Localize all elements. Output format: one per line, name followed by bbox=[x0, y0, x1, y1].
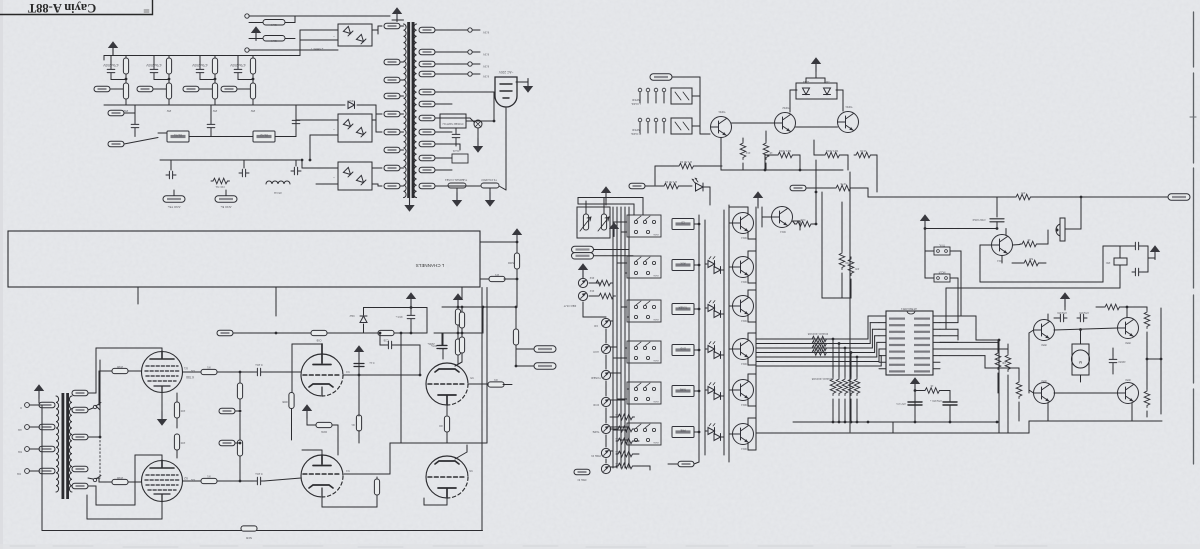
ground V4 bias bbox=[302, 404, 312, 418]
wire switch common vertical bbox=[924, 229, 926, 279]
svg-text:1K: 1K bbox=[930, 384, 933, 387]
svg-text:47WV 100uF: 47WV 100uF bbox=[972, 218, 986, 220]
zener diode NE2 bbox=[360, 316, 367, 323]
output transformer T2 secondary winding bbox=[56, 396, 59, 492]
wire LED D11 bbox=[705, 307, 707, 309]
svg-text:KT88: KT88 bbox=[186, 375, 194, 379]
svg-text:L CHANNELS: L CHANNELS bbox=[416, 263, 445, 268]
resistor R510 bbox=[995, 351, 1001, 370]
resistor R317 on V1 wire bbox=[201, 369, 217, 374]
svg-text:RC3 +: RC3 + bbox=[395, 315, 402, 318]
svg-text:8050: 8050 bbox=[1041, 379, 1047, 382]
ground TF2 bbox=[485, 193, 495, 207]
ground at AC inlet bbox=[523, 79, 533, 93]
svg-text:47K: 47K bbox=[1020, 191, 1025, 194]
wire relay K12 to bus bbox=[694, 308, 699, 310]
wire switches to IC pins bbox=[960, 251, 962, 316]
svg-text:FR107: FR107 bbox=[347, 99, 355, 102]
relay coil K10 bbox=[672, 219, 694, 230]
svg-text:470u/16V: 470u/16V bbox=[1057, 311, 1067, 313]
transistor Q13 selector driver bbox=[733, 339, 754, 360]
wire bus2 extension right bbox=[296, 104, 345, 106]
wire filter to bridge bbox=[253, 55, 300, 57]
svg-text:1K: 1K bbox=[769, 151, 772, 155]
wire jack chain bbox=[605, 355, 607, 369]
svg-text:~: ~ bbox=[333, 175, 335, 179]
svg-text:9014: 9014 bbox=[741, 236, 747, 239]
resistor R204 bbox=[513, 329, 518, 345]
wire Q13 base bbox=[729, 348, 733, 350]
capacitor C506 bbox=[1057, 314, 1067, 322]
capacitor C102 470uF bbox=[150, 66, 158, 76]
input jack J2 AUX bbox=[601, 344, 610, 353]
wire R503 right to B+ rail bbox=[867, 188, 869, 197]
svg-text:47mH: 47mH bbox=[274, 191, 282, 195]
capacitor C109 bbox=[239, 169, 249, 177]
svg-text:2K2: 2K2 bbox=[589, 289, 594, 292]
block L CHANNELS outline bbox=[8, 231, 480, 287]
svg-text:TIP41: TIP41 bbox=[718, 110, 726, 114]
wire Q16 links bbox=[762, 216, 772, 218]
capacitor C501 470u bbox=[943, 402, 957, 405]
bridge rectifier D3 bbox=[338, 162, 372, 190]
tube V2 grids bbox=[145, 475, 179, 490]
wire bridge2 left pins bbox=[296, 119, 338, 121]
transformer primary terminal P8 bbox=[384, 165, 400, 171]
wire Q15 collector bbox=[747, 418, 749, 425]
resistor R102 (upper) bbox=[166, 58, 171, 74]
wire bottom selector bbox=[634, 465, 650, 467]
wire Q17 emitter net bbox=[1001, 256, 1003, 264]
transistor Q19 bbox=[1034, 383, 1055, 404]
resistor R514 bbox=[1144, 389, 1150, 408]
transistor Q10 selector driver bbox=[733, 213, 754, 234]
transistor Q17 remote amp bbox=[992, 235, 1013, 256]
output transformer T2 core bbox=[62, 393, 65, 499]
switch SW2 TKVL bbox=[934, 247, 950, 255]
svg-text:ATV 4.7u: ATV 4.7u bbox=[896, 402, 906, 405]
tube V1 grids bbox=[145, 366, 179, 381]
LED D12 indicator bbox=[708, 346, 715, 353]
svg-text:2W: 2W bbox=[251, 109, 256, 113]
selector wire bundle verticals bbox=[612, 207, 614, 468]
transformer primary terminal P2 bbox=[384, 59, 400, 65]
resistor R314 bbox=[459, 337, 464, 353]
svg-text:C6B: C6B bbox=[316, 339, 321, 342]
relay RL4 box bbox=[671, 118, 692, 134]
remote sensor area: resistor R507 bbox=[1014, 194, 1033, 200]
ground right of block bbox=[512, 228, 522, 242]
ground V3 grid bypass bbox=[354, 345, 364, 359]
wire sec 186 to fuse bbox=[441, 185, 470, 187]
svg-text:2W: 2W bbox=[213, 109, 218, 113]
wire T2 tap B+ (centre) bbox=[88, 436, 100, 438]
wire Q14 collector bbox=[747, 374, 749, 381]
resistor R101 (upper) bbox=[123, 58, 128, 74]
transistor Q15 selector driver bbox=[733, 424, 754, 445]
LED D5 bbox=[692, 178, 703, 191]
output transformer T2 secondary pills bbox=[39, 402, 55, 408]
net vertical x487 bbox=[486, 288, 488, 444]
tube V1 KT88 envelope bbox=[142, 352, 183, 393]
capacitor C101 470uF bbox=[107, 66, 115, 76]
terminal circle sec bbox=[468, 28, 472, 32]
transformer secondary terminal S7 bbox=[419, 115, 435, 121]
svg-text:W 1.5K R1: W 1.5K R1 bbox=[679, 160, 692, 163]
ground below V1 cathode bbox=[157, 412, 167, 426]
wire motor leads bbox=[1080, 375, 1082, 382]
svg-text:T3.15A/250V: T3.15A/250V bbox=[481, 178, 497, 182]
resistor R513 4K7 bbox=[1144, 310, 1150, 329]
svg-text:W2 1.5KR1: W2 1.5KR1 bbox=[825, 149, 838, 152]
svg-text:W2 1.5KR1: W2 1.5KR1 bbox=[778, 149, 791, 152]
wire Q13 collector bbox=[747, 333, 749, 340]
svg-text:9014: 9014 bbox=[741, 447, 747, 450]
resistor R302 grid V2 bbox=[112, 479, 128, 484]
transformer secondary terminal S11 bbox=[419, 167, 435, 173]
feedback resistor NFB bbox=[241, 526, 257, 531]
relay RL12 contacts box bbox=[627, 300, 661, 322]
wire 298 rail bbox=[822, 297, 851, 299]
inductor L1 choke bbox=[266, 181, 290, 184]
wire out right top bbox=[480, 241, 517, 243]
wire IC pins right long bbox=[940, 328, 958, 330]
resistor R506 1K bbox=[923, 388, 942, 394]
fuse F2 BLK bbox=[263, 36, 285, 42]
svg-text:TKVL: TKVL bbox=[938, 244, 945, 247]
pot element 1 bbox=[583, 214, 588, 230]
ground above switches bbox=[920, 214, 930, 228]
input jack J6 PRE IN bbox=[601, 448, 610, 457]
pill R OUTPUT bbox=[534, 363, 556, 369]
pill ANO B+ terminal bbox=[215, 196, 237, 202]
svg-text:10K: 10K bbox=[615, 425, 619, 427]
resistor R404 1.5K bbox=[823, 152, 842, 158]
terminal pill T102 bbox=[137, 86, 153, 92]
wire jacks top link bbox=[582, 302, 584, 317]
terminal circle L bbox=[245, 14, 249, 18]
wire Q10 base bbox=[729, 222, 733, 224]
jack main R bbox=[578, 291, 587, 300]
transformer secondary terminal S3 bbox=[419, 61, 435, 67]
svg-text:POWER SWITCH: POWER SWITCH bbox=[442, 122, 463, 126]
resistor R207 C2B bbox=[378, 330, 394, 335]
resistor R423 10K bbox=[616, 451, 635, 457]
relay coil K15 bbox=[672, 427, 694, 438]
resistor R504 bbox=[839, 251, 845, 270]
resistor R411 bbox=[594, 280, 613, 286]
wire jack J1 to bundle bbox=[610, 320, 613, 322]
svg-text:ANO B+: ANO B+ bbox=[220, 205, 231, 209]
pill R CHANNELS link bbox=[572, 253, 594, 259]
T2 primary top lead bbox=[71, 392, 73, 394]
svg-text:9014: 9014 bbox=[741, 403, 747, 406]
svg-text:2.5mm² T: 2.5mm² T bbox=[310, 47, 323, 51]
transformer primary terminal P1 bbox=[384, 23, 400, 29]
wire jack chain bbox=[605, 329, 607, 343]
wire block bottom drop x138 bbox=[137, 287, 139, 304]
wire Q13 emitter bbox=[747, 358, 749, 365]
switch contact W2 bbox=[93, 476, 101, 482]
wire left frame H bbox=[1028, 333, 1030, 393]
volume pot VR1 box bbox=[577, 207, 610, 238]
svg-text:520R: 520R bbox=[508, 261, 514, 265]
capacitor C507 bbox=[1077, 314, 1087, 322]
resistor R206 C6B bbox=[311, 330, 327, 335]
relay RL13 contacts box bbox=[627, 341, 661, 363]
wire feed left vert bbox=[764, 155, 766, 170]
output transformer T2 primary winding bbox=[69, 396, 72, 492]
wire jack chain bbox=[605, 459, 607, 463]
resistor R310 bbox=[374, 479, 379, 495]
resistor R205 bbox=[455, 339, 460, 355]
AC inlet connector CON1 bbox=[495, 77, 517, 107]
wire bundle to relay stubs bbox=[613, 221, 627, 223]
relay RL3 box bbox=[671, 88, 692, 104]
wire between relay boxes bbox=[189, 136, 253, 138]
wire Q18 Q19 bases bbox=[1029, 330, 1034, 333]
gnd rail bottom bbox=[793, 421, 999, 423]
wire MCU nested L feeds bbox=[940, 315, 976, 317]
capacitor C202 electrolytic bbox=[439, 342, 447, 352]
tube V5 plate bbox=[435, 369, 459, 372]
wire right cluster frame bbox=[442, 332, 483, 334]
transistor Q8 bbox=[775, 113, 796, 134]
wire H top rail bbox=[1047, 314, 1049, 321]
svg-text:R CHNL: R CHNL bbox=[630, 132, 641, 136]
svg-text:CHNL: CHNL bbox=[652, 400, 659, 402]
wire selector bus C bbox=[723, 210, 725, 455]
svg-text:TIP41: TIP41 bbox=[845, 105, 853, 109]
svg-text:CHNL: CHNL bbox=[652, 359, 659, 361]
transformer secondary terminal S8 bbox=[419, 129, 435, 135]
wire Q11 base bbox=[729, 266, 733, 268]
capacitor C107 bbox=[292, 117, 300, 127]
transformer primary terminal P6 bbox=[384, 129, 400, 135]
svg-text:6.3V: 6.3V bbox=[483, 31, 489, 35]
svg-text:47K: 47K bbox=[854, 267, 859, 270]
wire V4 cathode down bbox=[321, 497, 323, 507]
transistor Q21 bbox=[1118, 383, 1139, 404]
svg-text:AUX: AUX bbox=[680, 262, 686, 266]
resistor R104b (lower) bbox=[250, 83, 255, 99]
wire pills to bundle bbox=[594, 249, 630, 251]
svg-text:CL21: CL21 bbox=[452, 149, 459, 153]
transformer T1 secondary winding bbox=[414, 24, 417, 198]
resistor R102b (lower) bbox=[166, 83, 171, 99]
svg-text:9014: 9014 bbox=[780, 230, 786, 233]
vertical resistor bank RN2 pulldowns bbox=[832, 338, 835, 341]
capacitor C112 X2 bbox=[452, 131, 460, 141]
resistor R318 on V2 wire bbox=[201, 478, 217, 483]
terminal pill T101 bbox=[94, 86, 110, 92]
wire bridge3 outs bbox=[372, 167, 376, 169]
wire corner net y443 bbox=[390, 442, 487, 444]
pill bias test point TP1 bbox=[219, 408, 235, 414]
terminal pill T103 bbox=[183, 86, 199, 92]
svg-text:TIP42: TIP42 bbox=[782, 106, 790, 110]
svg-text:PRE IN: PRE IN bbox=[591, 454, 600, 458]
wire jack J4 to bundle bbox=[610, 399, 625, 401]
relay coil K12 bbox=[672, 304, 694, 315]
capacitor C106 bbox=[207, 121, 215, 131]
wire V6 plate stub bbox=[455, 452, 467, 459]
resistor R406 bbox=[677, 163, 696, 169]
tube V3 6SN7 (upper) envelope bbox=[301, 354, 343, 396]
svg-text:0.22u: 0.22u bbox=[255, 472, 262, 476]
pill 12V label bbox=[629, 183, 645, 189]
wire long rail bottom right bbox=[892, 422, 894, 433]
IR receiver U2 bbox=[1060, 218, 1065, 241]
T2 primary tap pills bbox=[72, 390, 88, 396]
svg-text:0.1u: 0.1u bbox=[369, 361, 374, 364]
ground below lamp bbox=[473, 139, 483, 153]
ground above zener box bbox=[811, 57, 821, 71]
junction on B+ line bbox=[1080, 196, 1083, 199]
wire Q15 base bbox=[729, 433, 733, 435]
LED D11 indicator bbox=[708, 305, 715, 312]
tube V1 plate bbox=[150, 351, 174, 359]
pill bias test point TP2 bbox=[219, 440, 235, 446]
svg-text:10K: 10K bbox=[615, 413, 619, 415]
svg-text:9014LN1 4CW1CB: 9014LN1 4CW1CB bbox=[811, 377, 832, 380]
svg-text:C2B: C2B bbox=[383, 339, 388, 342]
power switch SW1 box bbox=[440, 114, 466, 128]
svg-text:CHNL: CHNL bbox=[652, 274, 659, 276]
transformer secondary terminal S5 bbox=[419, 89, 435, 95]
svg-text:C2B: C2B bbox=[800, 218, 805, 221]
ground at filter bus bbox=[108, 41, 118, 55]
wire relay K13 to bus bbox=[694, 349, 699, 351]
resistor R503 bbox=[834, 185, 853, 191]
svg-text:100: 100 bbox=[180, 441, 185, 445]
svg-text:CD: CD bbox=[681, 221, 685, 225]
wire x338 drop bbox=[337, 425, 339, 455]
svg-text:THERMAL FUSE1: THERMAL FUSE1 bbox=[444, 178, 467, 182]
svg-text:AT89C2051: AT89C2051 bbox=[901, 307, 917, 311]
feedback loop left vertical bbox=[41, 405, 43, 531]
svg-text:4K: 4K bbox=[1027, 238, 1030, 241]
resistor R101b (lower) bbox=[123, 83, 128, 99]
ground H-bridge top bbox=[1060, 292, 1070, 306]
wire bus stub left bbox=[103, 56, 105, 61]
svg-text:W6B: W6B bbox=[282, 400, 288, 403]
resistor R312 RGW2 bbox=[316, 422, 332, 427]
wire right pins down bbox=[957, 329, 959, 340]
svg-text:R7B: R7B bbox=[840, 182, 845, 185]
tube V6 6SN7 (lower right) envelope bbox=[426, 456, 468, 498]
wire KT88 V2 plate top bbox=[161, 455, 163, 460]
transformer secondary terminal S1 bbox=[419, 27, 435, 33]
resistor R203 bbox=[455, 309, 460, 325]
svg-text:V3: V3 bbox=[346, 370, 350, 374]
wire Q7 Q8 bases bbox=[732, 122, 761, 124]
wire V1 plate right bbox=[183, 371, 255, 373]
bridge rectifier D1 bbox=[338, 24, 372, 46]
feedback loop bottom wire bbox=[42, 530, 483, 532]
svg-text:52K: 52K bbox=[1028, 257, 1033, 260]
relay coil K14 bbox=[672, 386, 694, 397]
resistor R105 bbox=[211, 178, 230, 184]
wire Hbottom verticals bbox=[1047, 403, 1049, 422]
speaker jack SP4 bbox=[25, 469, 30, 474]
ground near fuses bbox=[251, 26, 261, 40]
resistor R305 bbox=[237, 383, 242, 399]
capacitor C103 470uF bbox=[196, 66, 204, 76]
feedback loop right vertical bbox=[481, 288, 483, 531]
wire zener to Q8 Q9 bbox=[790, 89, 797, 91]
wire jack J2 to bundle bbox=[610, 346, 617, 348]
capacitor C503 bypass bbox=[990, 219, 1004, 222]
svg-text:SPKR: SPKR bbox=[632, 98, 640, 102]
svg-text:9014LN1 4CW1CB: 9014LN1 4CW1CB bbox=[807, 332, 828, 335]
scan speckle bottom edge bbox=[0, 544, 1200, 549]
tube V6 grid dash bbox=[428, 476, 466, 478]
lamp NE1 bbox=[474, 120, 482, 128]
ground below IC bbox=[910, 377, 920, 391]
speaker jack SP2 bbox=[25, 425, 30, 430]
tube V3 grid dash bbox=[303, 374, 341, 376]
wire relay K10 to bus bbox=[694, 223, 699, 225]
wire bridge1 out bbox=[372, 29, 378, 31]
wire V2 plate right bbox=[183, 480, 255, 482]
svg-text:CHNL: CHNL bbox=[652, 441, 659, 443]
transformer secondary terminal S12 bbox=[419, 183, 435, 189]
svg-text:V6: V6 bbox=[469, 469, 473, 473]
box secondary 158 bbox=[452, 154, 468, 163]
crystal Y1 box bbox=[1114, 258, 1127, 265]
resistor R402 bbox=[763, 141, 769, 160]
svg-text:NC NL: NC NL bbox=[215, 185, 224, 189]
svg-text:1K R1: 1K R1 bbox=[859, 149, 866, 152]
svg-text:V2: V2 bbox=[184, 476, 188, 480]
pill +12V supply bbox=[650, 74, 672, 80]
zener row: wire y333 bbox=[276, 332, 427, 334]
resistor R306 bbox=[237, 440, 242, 456]
transistor Q16 bbox=[772, 207, 793, 228]
wire vert x850 main bbox=[849, 172, 851, 432]
transformer primary terminal P9 bbox=[384, 183, 400, 189]
wire mid rail 170 bbox=[721, 169, 843, 171]
wire zener gnd tee bbox=[806, 77, 825, 79]
svg-text:PRE: PRE bbox=[680, 429, 686, 433]
wire selector bus A bbox=[698, 215, 700, 462]
svg-text:470u/250V: 470u/250V bbox=[191, 63, 207, 67]
svg-text:8550: 8550 bbox=[1041, 343, 1047, 346]
wire IR to node bbox=[1065, 228, 1081, 230]
wire LED down bbox=[703, 186, 710, 188]
wire out right lower bbox=[480, 278, 490, 280]
capacitor C305 electrolytic bbox=[437, 346, 447, 349]
tube V3 plate bbox=[313, 344, 331, 365]
svg-text:TAPE: TAPE bbox=[679, 388, 686, 392]
wire V3 plate drop left bbox=[291, 344, 293, 393]
bridge rectifier D2 bbox=[338, 114, 372, 142]
ground on bundle bbox=[609, 222, 619, 236]
input jack J5 TAPE bbox=[601, 424, 610, 433]
wire sec 132 bbox=[441, 131, 452, 133]
resistor R401 bbox=[740, 141, 746, 160]
svg-text:ZM33+: ZM33+ bbox=[427, 342, 435, 344]
wire resistor cluster links bbox=[610, 416, 616, 418]
control rows with resistors to MCU bbox=[756, 338, 868, 340]
wire AC inlet down bbox=[505, 108, 507, 190]
wire H right frame bbox=[1160, 308, 1162, 414]
svg-text:W1B: W1B bbox=[117, 365, 123, 369]
capacitor C105 bbox=[131, 121, 139, 131]
wire Q10 emitter bbox=[747, 232, 749, 239]
resistor R509 bbox=[1022, 260, 1041, 266]
